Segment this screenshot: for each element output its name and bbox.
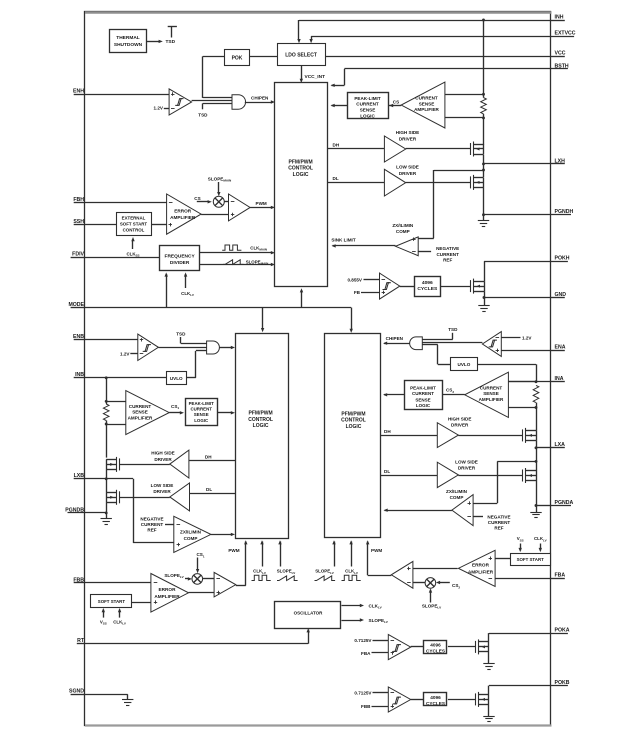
net DL (A) (380, 475, 437, 477)
svg-text:POKA: POKA (555, 628, 570, 634)
svg-text:CURRENT: CURRENT (415, 96, 438, 101)
net CLKLV into soft start A (540, 544, 542, 551)
svg-text:CYCLES: CYCLES (426, 648, 445, 653)
current sense amplifier B (126, 391, 169, 435)
svg-text:SENSE: SENSE (132, 410, 148, 415)
svg-text:CS: CS (393, 99, 399, 104)
negative current ref H (418, 251, 431, 253)
svg-text:SENSE: SENSE (415, 397, 430, 402)
svg-text:LXA: LXA (555, 442, 566, 448)
POKB comparator (388, 687, 410, 712)
net VCC_INT (301, 66, 303, 80)
svg-text:0.855V: 0.855V (347, 277, 362, 282)
svg-text:SENSE: SENSE (419, 101, 435, 106)
pin LXA (552, 447, 565, 449)
TSD net stub symbol (171, 26, 173, 37)
svg-text:DL: DL (333, 176, 339, 181)
label 1.2V (A) (501, 337, 520, 339)
svg-text:ZX/ILIMIN: ZX/ILIMIN (392, 223, 414, 228)
net CLKLV into frequency divider (185, 274, 187, 288)
svg-text:SOFT START: SOFT START (98, 599, 126, 604)
wire PGNDH (483, 187, 485, 214)
wire BSTH to control logic (344, 68, 551, 70)
error amplifier H (167, 194, 202, 234)
wire RT to oscillator (85, 643, 308, 645)
svg-text:PWM: PWM (256, 201, 267, 206)
wire ENA to comparator (501, 350, 551, 352)
svg-text:AMPLIFIER: AMPLIFIER (128, 415, 153, 420)
svg-text:PFM/PWM: PFM/PWM (289, 159, 313, 165)
svg-text:POKB: POKB (555, 680, 570, 686)
svg-text:PGNDB: PGNDB (65, 507, 84, 513)
pin SGND (71, 694, 85, 696)
soft start block A (511, 554, 551, 566)
error amplifier B (151, 574, 189, 613)
thermal shutdown block (110, 30, 147, 53)
net DH (A) (380, 435, 437, 437)
svg-text:BSTH: BSTH (555, 63, 569, 69)
wire INA (508, 381, 551, 383)
svg-text:SHUTDOWN: SHUTDOWN (114, 42, 143, 48)
wire error amp B output (189, 592, 215, 594)
pin POKA (552, 633, 568, 635)
svg-text:DRIVER: DRIVER (153, 489, 171, 494)
svg-text:FB: FB (354, 290, 361, 295)
net SLOPELV to control logic B (280, 542, 282, 567)
svg-text:0.7125V: 0.7125V (354, 638, 372, 643)
wire FBH to error amplifier (85, 202, 167, 204)
wire AND B to control logic B (219, 347, 232, 349)
svg-text:REF: REF (494, 525, 503, 530)
external soft start control block (117, 213, 152, 236)
wire ZX comp B output (211, 534, 232, 536)
wire POKB comp to 4096 (411, 699, 424, 701)
svg-text:NEGATIVE: NEGATIVE (436, 246, 459, 251)
svg-text:SSH: SSH (73, 219, 84, 225)
4096 cycles block A (424, 641, 447, 654)
wire LXA node (536, 440, 538, 470)
wire INH run (299, 20, 484, 22)
high side driver H (384, 136, 405, 162)
4096 cycles block B (424, 693, 447, 706)
wire ZX comp A output (385, 510, 452, 512)
svg-text:CURRENT: CURRENT (488, 520, 511, 525)
high side driver A (437, 423, 458, 448)
wire MODE to control logic H (301, 290, 303, 308)
svg-text:AMPLIFIER: AMPLIFIER (468, 569, 494, 574)
svg-text:CURRENT: CURRENT (480, 385, 503, 390)
svg-text:PEAK-LIMIT: PEAK-LIMIT (354, 96, 380, 101)
wire multiplier to comparator H (224, 201, 228, 203)
wire UVLO B riser (195, 351, 197, 378)
wire PWM A riser (368, 575, 392, 577)
wire FBB to error amplifier (85, 582, 151, 584)
POKA comparator (388, 635, 410, 660)
AND gate B (207, 341, 220, 354)
wire ENB to comparator (85, 339, 138, 341)
svg-text:LOGIC: LOGIC (346, 424, 362, 430)
svg-text:AMPLIFIER: AMPLIFIER (170, 215, 196, 220)
wire ZX sense tap H (434, 170, 484, 172)
wire EXTVCC to LDO SELECT (311, 36, 551, 38)
wire SGND (85, 694, 128, 696)
svg-text:TSD: TSD (448, 327, 458, 332)
outer block border (85, 12, 551, 726)
low side driver B (170, 483, 190, 511)
svg-text:CONTROL: CONTROL (248, 417, 273, 423)
net CLKLV from oscillator (342, 605, 362, 607)
FB comparator H (380, 273, 400, 299)
svg-text:TSD: TSD (198, 113, 208, 118)
svg-text:REF: REF (147, 528, 156, 533)
svg-text:LOGIC: LOGIC (253, 423, 269, 429)
ground SGND (127, 694, 129, 699)
wire UVLO A to INA (477, 364, 536, 366)
wire MODE to control logic B (262, 308, 264, 330)
TSD net output wire (147, 41, 161, 43)
svg-text:VCC_INT: VCC_INT (305, 74, 326, 80)
net CHIPEN A (384, 343, 410, 345)
pin POKB (552, 685, 568, 687)
net SINK LIMIT (333, 245, 396, 247)
PFM/PWM control logic H block (275, 83, 328, 287)
low-side MOSFET B (119, 491, 121, 503)
svg-text:GND: GND (555, 292, 567, 298)
svg-text:ERROR: ERROR (174, 208, 192, 213)
AND gate A (410, 337, 423, 350)
multiplier B (192, 574, 203, 585)
peak-limit current sense logic H block (348, 93, 389, 119)
svg-text:1.2V: 1.2V (154, 106, 164, 111)
svg-text:EXTVCC: EXTVCC (555, 31, 576, 37)
POKH MOSFET (470, 280, 472, 292)
pin INA (552, 381, 565, 383)
svg-text:UVLO: UVLO (458, 362, 471, 367)
svg-text:NEGATIVE: NEGATIVE (140, 516, 163, 521)
svg-text:EXTERNAL: EXTERNAL (122, 215, 146, 220)
svg-text:4096: 4096 (430, 695, 441, 700)
ZX/ILIMIN comparator A (452, 495, 473, 526)
net CLKLV into soft start B (119, 610, 121, 618)
wire FBA to error amplifier (495, 578, 551, 580)
pin FBH (74, 202, 85, 204)
svg-text:FREQUENCY: FREQUENCY (165, 254, 196, 260)
pin ENH (74, 94, 85, 96)
current sense amplifier H (401, 82, 445, 128)
svg-text:CURRENT: CURRENT (129, 404, 152, 409)
wire POKA source to ground (488, 652, 490, 664)
svg-text:CONTROL: CONTROL (123, 227, 145, 232)
wire CS amp B inputs (106, 401, 126, 403)
svg-text:4096: 4096 (430, 642, 441, 647)
svg-text:POKH: POKH (555, 256, 570, 262)
wire multiplier B to comparator (203, 578, 215, 580)
svg-text:HIGH SIDE: HIGH SIDE (396, 130, 419, 135)
net SLOPELV from oscillator (342, 620, 362, 622)
wire POK to AND gate (203, 56, 225, 58)
svg-text:CYCLES: CYCLES (426, 701, 445, 706)
comparator ENA (482, 332, 501, 357)
wire 4096 A to MOSFET (448, 646, 475, 648)
svg-text:CYCLES: CYCLES (417, 286, 438, 292)
wire CS amp H inputs (445, 94, 484, 96)
wire CS amp A inputs (508, 381, 536, 383)
multiplier A (425, 578, 436, 589)
net DH (B) (189, 460, 236, 462)
svg-text:CHIPEN: CHIPEN (386, 336, 404, 341)
PFM/PWM control logic A block (325, 334, 381, 538)
wire UVLO A riser (437, 345, 439, 365)
LDO SELECT block (278, 44, 326, 66)
svg-text:LXB: LXB (74, 473, 85, 479)
svg-text:4096: 4096 (422, 280, 433, 286)
POKA MOSFET (475, 641, 477, 653)
high-side MOSFET B (119, 458, 121, 470)
svg-text:LOGIC: LOGIC (194, 418, 209, 423)
pin BSTH (552, 68, 568, 70)
wire soft start A to error amp (495, 558, 510, 560)
wire error amp A output (413, 568, 458, 570)
current sense amplifier A (465, 372, 509, 417)
wire PGNDA (536, 481, 538, 506)
net SLOPEMAIN to control logic H (200, 264, 272, 266)
svg-text:FBH: FBH (73, 197, 84, 203)
svg-text:HIGH SIDE: HIGH SIDE (151, 451, 174, 456)
error amplifier A (458, 550, 495, 586)
net CLKLV to control logic B (262, 542, 264, 567)
svg-text:1.2V: 1.2V (522, 335, 532, 340)
net DL (B) (190, 493, 236, 495)
UVLO block B (167, 372, 187, 385)
net DH (H) (328, 148, 384, 150)
svg-text:CURRENT: CURRENT (141, 522, 164, 527)
svg-text:COMP: COMP (450, 495, 464, 500)
svg-text:COMP: COMP (184, 536, 198, 541)
wire FDIV to frequency divider (85, 257, 160, 259)
wire driver B high to gate (120, 464, 170, 466)
wire 4096 B to MOSFET (448, 699, 475, 701)
wire FB comp to 4096 H (400, 286, 415, 288)
sense resistor H (483, 20, 485, 98)
svg-text:ZX/ILIMIN: ZX/ILIMIN (446, 489, 468, 494)
svg-text:SINK LIMIT: SINK LIMIT (331, 237, 355, 242)
wire driver B low to gate (120, 497, 170, 499)
ZX/ILIMIN comparator H (396, 237, 419, 256)
pin EXTVCC (552, 36, 575, 38)
pin POKH (552, 261, 568, 263)
low-side MOSFET H (470, 176, 472, 188)
wire peak-limit H to control logic (332, 105, 348, 107)
low side driver H (384, 169, 405, 196)
svg-text:0.7125V: 0.7125V (354, 690, 372, 695)
wire POKH source to GND (484, 291, 486, 297)
net CHIPEN H (245, 102, 272, 104)
svg-text:HIGH SIDE: HIGH SIDE (448, 417, 471, 422)
wire POKA comp to 4096 (411, 646, 424, 648)
svg-text:PFM/PWM: PFM/PWM (249, 410, 273, 416)
wire driver A high to gate (458, 435, 522, 437)
svg-text:DRIVER: DRIVER (451, 422, 469, 427)
wire comparator A to AND bundle (422, 342, 482, 344)
PWM comparator B (214, 572, 236, 597)
svg-text:AMPLIFIER: AMPLIFIER (154, 594, 180, 599)
peak-limit current sense logic B block (186, 399, 218, 426)
net VSS into soft start B (103, 610, 105, 618)
pin PGNDH (552, 214, 572, 216)
wire comparator B to AND bundle (158, 347, 206, 349)
wire VCC to LDO SELECT (325, 56, 551, 58)
pin LXH (552, 163, 565, 165)
ZX/ILIMIN comparator B (174, 516, 211, 552)
pin INH (552, 20, 565, 22)
svg-text:DRIVER: DRIVER (399, 136, 417, 141)
wire POKA drain (488, 633, 490, 642)
svg-text:SGND: SGND (69, 689, 84, 695)
svg-text:SOFT START: SOFT START (120, 221, 148, 226)
svg-text:LOW SIDE: LOW SIDE (455, 460, 478, 465)
UVLO block A (451, 358, 478, 371)
svg-text:PEAK-LIMIT: PEAK-LIMIT (189, 401, 214, 406)
svg-text:CURRENT: CURRENT (436, 252, 459, 257)
wire MODE to control logic A (351, 308, 353, 331)
pin FDIV (71, 257, 85, 259)
svg-text:DRIVER: DRIVER (154, 457, 172, 462)
wire comparator to AND (3-line bundle) (192, 100, 232, 102)
svg-text:CURRENT: CURRENT (412, 391, 434, 396)
PFM/PWM control logic B block (236, 334, 289, 539)
4096 cycles block H (415, 277, 441, 297)
high-side MOSFET A (522, 429, 524, 441)
svg-text:DRIVER: DRIVER (458, 465, 476, 470)
svg-text:UVLO: UVLO (170, 376, 183, 381)
ground PGNDB (106, 513, 108, 519)
wire peak-limit A to control logic (384, 394, 404, 396)
svg-text:1.2V: 1.2V (120, 351, 130, 356)
svg-text:PEAK-LIMIT: PEAK-LIMIT (410, 385, 436, 390)
net CLKSS into soft start control (132, 240, 134, 250)
svg-text:POK: POK (232, 55, 243, 61)
wire driver H low to gate (406, 182, 470, 184)
wire INH to LDO SELECT (298, 20, 300, 40)
svg-text:PWM: PWM (228, 548, 239, 553)
svg-text:TSD: TSD (166, 39, 176, 45)
svg-text:THERMAL: THERMAL (116, 35, 140, 41)
sense resistor B (106, 378, 108, 404)
svg-text:LOGIC: LOGIC (360, 113, 375, 118)
svg-text:LDO SELECT: LDO SELECT (285, 53, 317, 59)
svg-text:ENA: ENA (555, 345, 566, 351)
svg-text:FBB: FBB (361, 704, 371, 709)
wire driver H to gate (406, 148, 470, 150)
peak-limit current sense logic A block (405, 381, 443, 410)
pin MODE (71, 307, 85, 309)
svg-text:LOW SIDE: LOW SIDE (396, 164, 419, 169)
wire peak-limit B to control logic (217, 412, 232, 414)
svg-text:CONTROL: CONTROL (288, 166, 313, 172)
wire MODE bus (85, 307, 351, 309)
wire PWM B riser (236, 585, 246, 587)
svg-text:ERROR: ERROR (472, 562, 490, 567)
net VSS into soft start A (520, 544, 522, 551)
svg-text:CHIPEN: CHIPEN (251, 96, 269, 101)
low side driver A (437, 462, 458, 487)
svg-text:PGNDH: PGNDH (555, 209, 574, 215)
pin ENA (552, 350, 565, 352)
svg-text:ZX/ILIMIN: ZX/ILIMIN (180, 529, 202, 534)
wire error amp H output (201, 214, 228, 216)
AND gate H (232, 95, 246, 110)
svg-text:DH: DH (384, 429, 391, 434)
pin GND (552, 297, 565, 299)
svg-text:CURRENT: CURRENT (190, 407, 212, 412)
svg-text:INB: INB (75, 372, 84, 378)
pin ENB (74, 339, 85, 341)
wire POKB source to ground (488, 704, 490, 716)
svg-text:FBA: FBA (361, 651, 371, 656)
svg-text:DL: DL (384, 469, 390, 474)
svg-text:LOW SIDE: LOW SIDE (151, 483, 174, 488)
svg-text:COMP: COMP (396, 229, 410, 234)
wire LXH node (483, 154, 485, 177)
wire POK to LDO SELECT (249, 56, 277, 58)
net PWM H (250, 207, 272, 209)
wire SSH to soft start control (85, 224, 116, 226)
wire ZX sense tap B (133, 479, 135, 543)
svg-text:FDIV: FDIV (72, 252, 84, 258)
wire POKH drain (484, 261, 486, 281)
svg-text:PWM: PWM (371, 548, 382, 553)
svg-text:LOGIC: LOGIC (293, 172, 309, 178)
svg-text:ENB: ENB (73, 334, 84, 340)
PWM comparator H (229, 194, 251, 221)
svg-text:DH: DH (333, 143, 340, 148)
svg-text:SENSE: SENSE (483, 391, 499, 396)
svg-text:SENSE: SENSE (360, 108, 376, 113)
negative current ref A (473, 516, 483, 518)
wire INB to UVLO (85, 377, 166, 379)
sense resistor A (533, 385, 539, 402)
net CLKMAIN to control logic H (200, 252, 272, 254)
svg-text:SOFT START: SOFT START (517, 557, 545, 562)
svg-text:INA: INA (555, 376, 564, 382)
pin PGNDB (68, 512, 86, 514)
wire ENH to comparator (85, 94, 169, 96)
wire soft start B to error amp (132, 602, 151, 604)
low-side MOSFET A (522, 470, 524, 482)
svg-text:TSD: TSD (176, 331, 186, 336)
svg-text:AMPLIFIER: AMPLIFIER (414, 107, 439, 112)
high-side MOSFET H (470, 143, 472, 155)
svg-text:OSCILLATOR: OSCILLATOR (294, 610, 324, 615)
wire PGNDB (106, 502, 108, 513)
net TSD to AND gate H (202, 103, 204, 109)
high side driver B (170, 450, 189, 478)
soft start block B (91, 595, 132, 608)
svg-text:DL: DL (206, 487, 212, 492)
wire POKB drain (488, 686, 490, 695)
net TSD to AND gate A (452, 333, 454, 339)
pin SSH (74, 224, 85, 226)
svg-text:SENSE: SENSE (194, 412, 209, 417)
svg-text:ERROR: ERROR (159, 587, 177, 592)
pin VCC (552, 56, 565, 58)
comparator ENB (138, 334, 159, 360)
pin FBA (552, 578, 565, 580)
svg-text:NEGATIVE: NEGATIVE (487, 514, 510, 519)
wire ZX sense tap A (497, 461, 536, 463)
pin PGNDA (552, 505, 572, 507)
svg-text:INH: INH (555, 14, 564, 20)
